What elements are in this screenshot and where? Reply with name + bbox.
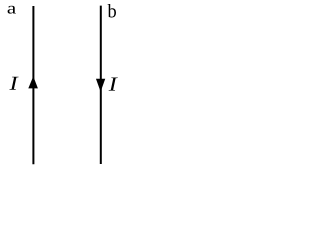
label a (wire a name) — [8, 6, 16, 14]
current arrow I up on wire a — [28, 76, 38, 88]
current arrow I down on wire b — [96, 79, 105, 92]
wire a (left vertical conductor) — [32, 6, 34, 164]
wire b (right vertical conductor) — [100, 6, 102, 164]
label b (wire b name) — [108, 4, 116, 17]
current label I on wire b — [109, 77, 118, 90]
current label I on wire a — [9, 77, 18, 90]
